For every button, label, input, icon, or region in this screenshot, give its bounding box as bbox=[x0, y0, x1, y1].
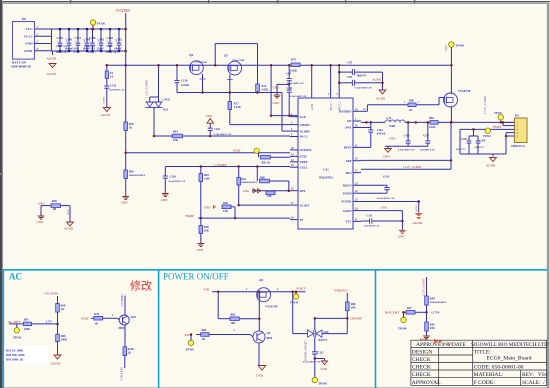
svg-text:1uF/400VCAP: 1uF/400VCAP bbox=[364, 225, 380, 228]
svg-text:101uF: 101uF bbox=[106, 45, 113, 48]
svg-text:CON_LED1: CON_LED1 bbox=[121, 366, 124, 381]
svg-text:STAT: STAT bbox=[81, 316, 90, 320]
svg-text:8050: 8050 bbox=[267, 337, 273, 340]
svg-text:SW: SW bbox=[347, 119, 352, 123]
svg-text:VCC: VCC bbox=[25, 27, 33, 31]
svg-text:TEMP: TEMP bbox=[493, 125, 502, 129]
svg-text:TP136: TP136 bbox=[97, 22, 106, 26]
svg-text:AC_DET: AC_DET bbox=[8, 320, 22, 324]
svg-text:PGND: PGND bbox=[343, 191, 352, 195]
svg-text:R84: R84 bbox=[202, 329, 207, 332]
svg-text:SIGOWILL BIO MEDITECH LTD: SIGOWILL BIO MEDITECH LTD bbox=[471, 342, 548, 348]
svg-text:4.02K: 4.02K bbox=[234, 106, 242, 109]
svg-text:0.02K: 0.02K bbox=[429, 126, 436, 129]
svg-text:220uF: 220uF bbox=[97, 47, 105, 50]
svg-text:C142: C142 bbox=[116, 37, 123, 41]
svg-text:100K(0402)RES: 100K(0402)RES bbox=[129, 174, 146, 177]
svg-text:GND: GND bbox=[206, 114, 213, 118]
svg-text:AGND: AGND bbox=[47, 57, 57, 61]
svg-text:TP139: TP139 bbox=[494, 112, 502, 115]
svg-text:2A: 2A bbox=[110, 76, 113, 79]
svg-text:AGND: AGND bbox=[413, 221, 423, 225]
svg-text:STAT: STAT bbox=[300, 155, 307, 159]
svg-text:R82 1K: R82 1K bbox=[262, 161, 272, 164]
svg-text:0.01uF: 0.01uF bbox=[181, 84, 189, 87]
svg-text:C142: C142 bbox=[110, 85, 117, 88]
svg-text:VTA6/75P: VTA6/75P bbox=[265, 306, 278, 309]
svg-text:0.1uF/400VCAP: 0.1uF/400VCAP bbox=[377, 197, 395, 200]
svg-text:1uF/400VCAP: 1uF/400VCAP bbox=[420, 149, 435, 152]
svg-text:AGND: AGND bbox=[376, 96, 386, 100]
svg-text:L14: L14 bbox=[387, 117, 392, 120]
svg-text:SW1: SW1 bbox=[345, 126, 352, 130]
svg-text:BTST: BTST bbox=[344, 146, 352, 150]
svg-text:REGN: REGN bbox=[343, 184, 353, 188]
svg-text:TP142: TP142 bbox=[483, 135, 491, 138]
svg-text:GND: GND bbox=[321, 367, 328, 371]
svg-text:Q10: Q10 bbox=[131, 315, 137, 319]
svg-text:SRN: SRN bbox=[345, 171, 352, 175]
svg-text:0.047uF: 0.047uF bbox=[377, 133, 386, 136]
svg-text:0.1uF/400VCAP: 0.1uF/400VCAP bbox=[398, 149, 415, 152]
svg-text:C107: C107 bbox=[423, 135, 430, 138]
svg-text:AGND: AGND bbox=[343, 209, 353, 213]
svg-text:200K: 200K bbox=[61, 339, 68, 342]
svg-text:C140: C140 bbox=[66, 37, 73, 41]
svg-text:C109: C109 bbox=[480, 140, 486, 143]
svg-text:POWER ON/OFF: POWER ON/OFF bbox=[163, 272, 229, 282]
svg-text:GND: GND bbox=[161, 198, 168, 202]
svg-text:AGND: AGND bbox=[47, 72, 57, 76]
svg-text:AGND: AGND bbox=[64, 227, 74, 231]
svg-text:DET: DET bbox=[300, 189, 306, 193]
svg-text:100K(0402)RES: 100K(0402)RES bbox=[241, 181, 258, 184]
svg-text:ACSET: ACSET bbox=[300, 203, 310, 207]
svg-text:AGND: AGND bbox=[372, 78, 382, 82]
svg-text:R58: R58 bbox=[52, 200, 57, 203]
svg-text:APPROVAL: APPROVAL bbox=[412, 380, 441, 386]
svg-text:AGND: AGND bbox=[51, 362, 61, 366]
svg-text:REV: V04: REV: V04 bbox=[522, 372, 548, 378]
svg-text:10uF/5V: 10uF/5V bbox=[456, 148, 465, 151]
svg-text:GND: GND bbox=[381, 206, 388, 210]
svg-text:100K(0402)RES: 100K(0402)RES bbox=[430, 301, 447, 304]
svg-text:ACDRV: ACDRV bbox=[300, 129, 312, 133]
svg-text:C101: C101 bbox=[287, 87, 294, 90]
svg-text:VCC1: VCC1 bbox=[24, 35, 33, 39]
svg-text:0.1uF: 0.1uF bbox=[74, 51, 81, 54]
svg-text:AVCC: AVCC bbox=[300, 135, 308, 139]
svg-text:VTA6/76M: VTA6/76M bbox=[195, 61, 208, 64]
svg-text:APPROVES & DATE: APPROVES & DATE bbox=[416, 342, 467, 348]
svg-text:F1: F1 bbox=[110, 71, 114, 75]
svg-text:TP143: TP143 bbox=[13, 336, 22, 340]
svg-text:GND: GND bbox=[273, 86, 279, 90]
svg-text:AGND: AGND bbox=[443, 342, 453, 346]
svg-text:C139: C139 bbox=[57, 36, 64, 40]
svg-text:C103: C103 bbox=[214, 128, 221, 131]
svg-text:R68: R68 bbox=[223, 202, 228, 205]
svg-text:Q7: Q7 bbox=[224, 54, 228, 58]
svg-text:10uF/5V: 10uF/5V bbox=[475, 146, 484, 149]
svg-text:C138: C138 bbox=[170, 176, 177, 179]
svg-text:R91: R91 bbox=[24, 318, 29, 321]
svg-text:R94: R94 bbox=[94, 313, 99, 316]
svg-text:CELL: CELL bbox=[300, 165, 308, 169]
svg-text:R88: R88 bbox=[260, 176, 265, 179]
svg-text:CHECK: CHECK bbox=[412, 357, 431, 363]
svg-text:GND: GND bbox=[197, 248, 204, 252]
svg-text:C143: C143 bbox=[98, 37, 105, 41]
svg-text:TTC: TTC bbox=[345, 220, 351, 224]
svg-text:DESIGN: DESIGN bbox=[412, 349, 433, 355]
svg-text:C145: C145 bbox=[107, 36, 114, 40]
svg-text:MATERIAL:: MATERIAL: bbox=[474, 372, 504, 378]
svg-text:10K: 10K bbox=[231, 322, 237, 325]
svg-text:10uF/5V: 10uF/5V bbox=[357, 75, 367, 78]
svg-text:BAT75: BAT75 bbox=[319, 339, 328, 342]
svg-text:GND: GND bbox=[121, 201, 128, 205]
svg-text:OVPSET: OVPSET bbox=[300, 148, 312, 152]
svg-text:R91 100K 1K: R91 100K 1K bbox=[6, 358, 24, 362]
svg-text:CHECK: CHECK bbox=[412, 365, 431, 371]
svg-text:BATDRV: BATDRV bbox=[339, 110, 352, 114]
svg-text:AGND: AGND bbox=[486, 164, 496, 168]
svg-text:0.1uF/400VCAP: 0.1uF/400VCAP bbox=[214, 133, 232, 136]
svg-text:TP148: TP148 bbox=[398, 327, 407, 331]
svg-text:+VCONN: +VCONN bbox=[44, 292, 59, 296]
svg-text:GND: GND bbox=[25, 42, 33, 46]
svg-text:F CODE:: F CODE: bbox=[474, 380, 496, 386]
svg-text:680uF: 680uF bbox=[115, 47, 123, 50]
svg-text:11.1V_LI-BAT: 11.1V_LI-BAT bbox=[483, 96, 487, 114]
svg-text:0.1uF: 0.1uF bbox=[88, 51, 95, 54]
svg-text:修改: 修改 bbox=[130, 279, 152, 293]
svg-text:10K: 10K bbox=[204, 230, 210, 233]
svg-text:VDD3V3: VDD3V3 bbox=[334, 288, 347, 292]
svg-text:C98: C98 bbox=[347, 76, 352, 79]
svg-text:0.1uF/400VCAP: 0.1uF/400VCAP bbox=[355, 87, 373, 90]
svg-text:GND: GND bbox=[398, 234, 405, 238]
svg-text:+C108: +C108 bbox=[460, 138, 468, 141]
svg-text:ACN: ACN bbox=[311, 104, 314, 110]
svg-text:AGND: AGND bbox=[415, 205, 418, 212]
svg-text:11.1V_LI-BAT: 11.1V_LI-BAT bbox=[422, 278, 426, 296]
svg-text:C141: C141 bbox=[75, 36, 82, 40]
svg-text:R85: R85 bbox=[429, 117, 434, 120]
svg-text:VIN: VIN bbox=[203, 287, 210, 291]
svg-text:TRMP: TRMP bbox=[185, 214, 194, 218]
svg-text:GND: GND bbox=[256, 374, 264, 378]
svg-text:C112: C112 bbox=[318, 352, 325, 355]
svg-text:GND: GND bbox=[383, 155, 390, 159]
svg-text:3.3V/REF1: 3.3V/REF1 bbox=[121, 294, 124, 307]
svg-text:TITLE:: TITLE: bbox=[474, 349, 492, 355]
svg-text:10uH: 10uH bbox=[389, 125, 396, 128]
svg-text:4.02K: 4.02K bbox=[262, 89, 270, 92]
svg-text:R80: R80 bbox=[409, 100, 414, 103]
svg-text:P6: P6 bbox=[22, 17, 26, 21]
svg-text:VTA8/75P: VTA8/75P bbox=[458, 90, 471, 93]
svg-text:R97: R97 bbox=[407, 307, 412, 310]
svg-text:100K: 100K bbox=[24, 328, 31, 331]
svg-text:+2.75V: +2.75V bbox=[431, 310, 441, 314]
svg-text:SRP: SRP bbox=[346, 159, 352, 163]
svg-text:GND: GND bbox=[243, 190, 249, 193]
svg-text:U11: U11 bbox=[323, 168, 329, 172]
svg-text:AC: AC bbox=[9, 272, 22, 282]
svg-text:BQ24703: BQ24703 bbox=[319, 176, 333, 180]
svg-text:VDA6/76M: VDA6/76M bbox=[232, 59, 245, 62]
svg-text:AGND: AGND bbox=[101, 113, 111, 117]
svg-text:POWER_ON(OFF): POWER_ON(OFF) bbox=[305, 340, 308, 361]
svg-text:R83: R83 bbox=[231, 313, 236, 316]
svg-text:Q8: Q8 bbox=[259, 278, 263, 282]
svg-text:TP147: TP147 bbox=[290, 301, 299, 305]
svg-text:R79: R79 bbox=[291, 59, 296, 62]
svg-text:AC4: AC4 bbox=[67, 209, 70, 215]
svg-text:STAT: STAT bbox=[233, 149, 242, 153]
svg-text:AGND: AGND bbox=[420, 338, 428, 341]
svg-text:ECG6_Main_Board: ECG6_Main_Board bbox=[486, 356, 531, 362]
svg-text:0.02K: 0.02K bbox=[290, 70, 298, 73]
svg-text:15K: 15K bbox=[223, 210, 229, 213]
svg-text:SCALE: /: SCALE: / bbox=[522, 380, 545, 386]
svg-text:CHECK: CHECK bbox=[412, 372, 431, 378]
svg-text:C146: C146 bbox=[89, 36, 96, 40]
svg-text:GND: GND bbox=[37, 220, 44, 224]
svg-text:C110: C110 bbox=[383, 176, 390, 179]
svg-text:100uF/25V: 100uF/25V bbox=[84, 45, 96, 48]
svg-text:ACP: ACP bbox=[300, 115, 306, 119]
svg-text:10K: 10K bbox=[430, 327, 436, 330]
svg-text:11.1V_12-BAT: 11.1V_12-BAT bbox=[403, 165, 422, 169]
svg-text:TS: TS bbox=[300, 218, 304, 222]
svg-text:10K: 10K bbox=[267, 195, 272, 198]
svg-text:SMP-H008-5P: SMP-H008-5P bbox=[11, 65, 31, 69]
svg-text:CJ431: CJ431 bbox=[163, 99, 171, 102]
svg-text:+VCONN: +VCONN bbox=[115, 9, 130, 13]
svg-text:1uF/400VCAP: 1uF/400VCAP bbox=[109, 89, 125, 92]
svg-text:R64: R64 bbox=[241, 178, 246, 181]
svg-text:C111: C111 bbox=[367, 214, 374, 217]
svg-text:TP140: TP140 bbox=[456, 44, 465, 48]
svg-text:VREF: VREF bbox=[300, 160, 308, 164]
svg-text:R81: R81 bbox=[173, 131, 178, 134]
svg-text:8050: 8050 bbox=[119, 327, 125, 330]
svg-text:101uF/10V: 101uF/10V bbox=[106, 51, 119, 54]
svg-text:VD5: VD5 bbox=[444, 45, 448, 51]
svg-text:0.1uF/400VCAP: 0.1uF/400VCAP bbox=[169, 180, 186, 183]
svg-text:PVCC: PVCC bbox=[330, 103, 333, 110]
svg-text:C130: C130 bbox=[181, 80, 188, 83]
svg-text:P9: P9 bbox=[515, 114, 519, 118]
svg-text:100uF/10V: 100uF/10V bbox=[56, 51, 69, 54]
svg-text:GND: GND bbox=[38, 201, 45, 205]
svg-text:R96 20K 200K: R96 20K 200K bbox=[6, 353, 26, 357]
svg-text:VOUT: VOUT bbox=[296, 286, 306, 290]
svg-text:10K: 10K bbox=[351, 307, 357, 310]
svg-text:CODE: 050-00001-00: CODE: 050-00001-00 bbox=[474, 365, 524, 371]
svg-text:R91 1K 100K: R91 1K 100K bbox=[6, 349, 24, 353]
svg-text:11.1V_LI-BAT: 11.1V_LI-BAT bbox=[145, 80, 149, 98]
svg-text:TP145: TP145 bbox=[186, 348, 195, 352]
svg-text:2.7V: 2.7V bbox=[46, 320, 53, 324]
svg-text:ON/OFF: ON/OFF bbox=[350, 317, 362, 321]
svg-text:0.1uF/400VCAP: 0.1uF/400VCAP bbox=[290, 95, 307, 98]
svg-text:10K: 10K bbox=[173, 139, 179, 142]
svg-text:AGND: AGND bbox=[103, 97, 106, 104]
svg-text:C97: C97 bbox=[348, 62, 353, 65]
svg-text:CMSRC: CMSRC bbox=[300, 123, 311, 127]
svg-text:GND1: GND1 bbox=[24, 49, 33, 53]
svg-text:D21: D21 bbox=[163, 108, 169, 112]
svg-text:GND: GND bbox=[273, 101, 279, 105]
svg-text:C106: C106 bbox=[404, 135, 411, 138]
svg-text:GND: GND bbox=[204, 205, 211, 209]
svg-text:PGND1: PGND1 bbox=[342, 200, 352, 204]
svg-text:GND: GND bbox=[389, 137, 396, 141]
svg-text:TP146: TP146 bbox=[318, 382, 327, 386]
svg-text:1.7VREF: 1.7VREF bbox=[214, 163, 227, 167]
svg-text:SMB-05-A: SMB-05-A bbox=[511, 144, 525, 148]
svg-text:Q9: Q9 bbox=[267, 331, 271, 335]
svg-text:0.1uF/400VCAP: 0.1uF/400VCAP bbox=[287, 82, 304, 85]
svg-text:100uF/10V: 100uF/10V bbox=[56, 45, 68, 48]
svg-text:C98: C98 bbox=[286, 72, 291, 75]
svg-text:4.0K: 4.0K bbox=[204, 178, 210, 181]
svg-text:BAT_DET: BAT_DET bbox=[385, 310, 401, 314]
svg-text:Q6: Q6 bbox=[189, 53, 193, 57]
